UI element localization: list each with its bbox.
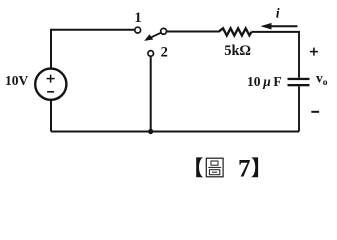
svg-text:7: 7 [238, 155, 251, 182]
caption right lenticular bracket [250, 157, 258, 177]
svg-text:1: 1 [134, 10, 141, 26]
switch terminal 1 circle [135, 27, 141, 33]
wire right vertical upper (corner down to capacitor) [298, 31, 300, 78]
svg-text:vo: vo [316, 71, 328, 88]
svg-text:5kΩ: 5kΩ [224, 43, 250, 59]
switch terminal 2 circle [148, 51, 154, 57]
svg-text:2: 2 [161, 45, 168, 61]
voltage source plus sign [47, 75, 55, 83]
resistor R1 5k ohm zigzag [218, 28, 251, 35]
polarity plus for vo [310, 48, 318, 56]
polarity minus for vo [311, 111, 319, 113]
wire pivot to resistor [166, 31, 218, 33]
wire resistor to top-right corner [252, 31, 301, 33]
wire middle vertical (terminal 2 down to bottom rail) [150, 56, 152, 131]
capacitor C1 bottom plate [288, 84, 310, 86]
svg-text:i: i [276, 6, 280, 21]
wire bottom rail [51, 131, 299, 133]
wire right vertical lower (capacitor to bottom rail) [298, 86, 300, 131]
wire left vertical upper (corner down to source top) [50, 29, 52, 69]
junction dot on bottom rail [148, 129, 153, 134]
wire top-left horizontal (source to switch terminal 1) [51, 29, 134, 31]
voltage source U1 10V [35, 69, 66, 100]
voltage source minus sign [47, 91, 54, 93]
caption Chinese character tu (figure) [206, 158, 223, 177]
switch blade with arrowhead [144, 33, 161, 41]
current arrow i [261, 23, 298, 30]
caption left lenticular bracket [196, 157, 204, 177]
wire left vertical lower (source bottom to bottom rail) [50, 100, 52, 132]
switch pivot circle [161, 28, 167, 34]
svg-text:10V: 10V [5, 73, 29, 88]
capacitor C1 top plate [288, 78, 310, 80]
svg-text:10 μ F: 10 μ F [247, 74, 282, 89]
